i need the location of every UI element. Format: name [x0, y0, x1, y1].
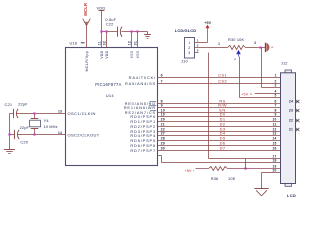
svg-text:27: 27 [161, 132, 165, 136]
svg-text:R30 10K: R30 10K [228, 37, 244, 42]
svg-text:30: 30 [161, 147, 165, 151]
svg-text:+5V: +5V [185, 169, 192, 173]
svg-text:6: 6 [161, 74, 163, 78]
svg-text:3: 3 [274, 84, 276, 88]
svg-text:Y4: Y4 [44, 118, 50, 123]
svg-text:10: 10 [273, 118, 277, 122]
svg-text:OSC1/CLKIN: OSC1/CLKIN [68, 111, 96, 116]
svg-text:J10: J10 [181, 58, 189, 63]
svg-text:RA4/T0CKI: RA4/T0CKI [129, 75, 156, 80]
svg-text:D7: D7 [220, 145, 226, 150]
svg-text:VDD: VDD [97, 6, 106, 11]
svg-text:13: 13 [58, 109, 62, 113]
svg-text:13: 13 [273, 132, 277, 136]
svg-text:32: 32 [103, 41, 107, 46]
svg-text:5: 5 [274, 94, 276, 98]
svg-text:20: 20 [161, 118, 165, 122]
svg-text:OSC2/CLKOUT: OSC2/CLKOUT [68, 133, 100, 138]
svg-text:28: 28 [161, 137, 165, 141]
svg-text:22pF: 22pF [20, 125, 30, 130]
svg-text:7: 7 [274, 104, 276, 108]
svg-text:J12: J12 [281, 60, 288, 65]
svg-text:+5V: +5V [204, 21, 211, 25]
svg-text:22pF: 22pF [18, 102, 28, 107]
svg-text:R36: R36 [211, 176, 219, 181]
svg-text:18: 18 [273, 159, 277, 163]
svg-text:11: 11 [98, 41, 102, 45]
svg-text:9: 9 [274, 113, 276, 117]
svg-text:CS1: CS1 [218, 72, 227, 77]
svg-text:10 MHz: 10 MHz [44, 124, 58, 129]
svg-text:15: 15 [273, 142, 277, 146]
svg-text:VDD: VDD [105, 50, 109, 58]
svg-text:+t: +t [234, 57, 237, 61]
svg-text:C20: C20 [20, 140, 28, 145]
svg-text:CS2: CS2 [218, 78, 227, 83]
svg-text:21: 21 [289, 128, 293, 132]
svg-text:31: 31 [134, 41, 138, 46]
svg-text:U16: U16 [70, 41, 79, 46]
svg-text:9: 9 [161, 104, 163, 108]
svg-text:RD7/PSP7: RD7/PSP7 [130, 148, 156, 153]
svg-text:U14: U14 [106, 93, 115, 98]
svg-text:4: 4 [274, 90, 276, 94]
svg-text:VSS: VSS [136, 50, 140, 58]
svg-text:C21: C21 [5, 102, 13, 107]
svg-text:14: 14 [273, 137, 277, 141]
svg-text:1: 1 [274, 74, 276, 78]
svg-text:VSS: VSS [130, 50, 134, 58]
svg-text:LCD/GLCD: LCD/GLCD [175, 28, 196, 33]
svg-text:3: 3 [188, 51, 190, 55]
svg-text:20: 20 [273, 169, 277, 173]
svg-text:C22: C22 [106, 21, 114, 26]
svg-text:12: 12 [128, 41, 132, 46]
svg-text:24: 24 [289, 100, 293, 104]
svg-text:3: 3 [254, 41, 256, 45]
svg-text:21: 21 [161, 123, 165, 127]
svg-text:MCLR/Vpp: MCLR/Vpp [85, 51, 89, 72]
svg-text:1: 1 [218, 42, 220, 46]
svg-text:LCD: LCD [287, 193, 296, 198]
svg-text:+5V: +5V [241, 92, 248, 96]
svg-text:29: 29 [161, 142, 165, 146]
svg-text:11: 11 [273, 123, 277, 127]
svg-text:1: 1 [188, 41, 190, 45]
svg-text:PIC16F877A: PIC16F877A [95, 82, 121, 87]
svg-text:7: 7 [161, 80, 163, 84]
svg-text:23: 23 [289, 109, 293, 113]
svg-text:22: 22 [289, 119, 293, 123]
svg-text:16: 16 [273, 147, 277, 151]
svg-text:17: 17 [273, 155, 277, 159]
svg-text:19: 19 [161, 113, 165, 117]
svg-text:VDD: VDD [100, 50, 104, 58]
svg-text:2: 2 [188, 46, 190, 50]
svg-text:10E: 10E [228, 176, 236, 181]
svg-text:MCLR: MCLR [83, 3, 88, 16]
svg-text:RA5/AN4/SS: RA5/AN4/SS [125, 81, 156, 86]
